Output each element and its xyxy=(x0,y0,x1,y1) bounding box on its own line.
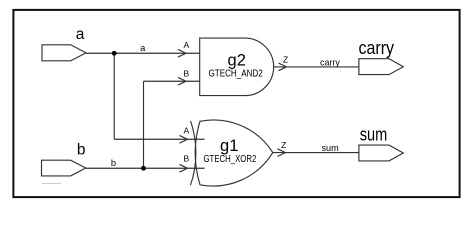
svg-text:Z: Z xyxy=(283,54,288,64)
svg-text:Z: Z xyxy=(281,140,286,150)
svg-text:sum: sum xyxy=(360,125,388,145)
svg-text:b: b xyxy=(77,141,86,158)
svg-text:b: b xyxy=(111,158,116,168)
svg-text:carry: carry xyxy=(320,57,340,67)
svg-text:B: B xyxy=(183,68,189,78)
svg-text:A: A xyxy=(183,40,189,50)
svg-text:carry: carry xyxy=(359,38,395,58)
svg-text:sum: sum xyxy=(321,143,339,153)
svg-text:a: a xyxy=(140,43,146,53)
svg-text:g2: g2 xyxy=(228,51,246,69)
svg-text:GTECH_XOR2: GTECH_XOR2 xyxy=(204,154,257,165)
svg-text:A: A xyxy=(183,126,189,136)
svg-text:g1: g1 xyxy=(220,137,238,155)
svg-text:a: a xyxy=(76,26,85,43)
svg-text:GTECH_AND2: GTECH_AND2 xyxy=(209,68,264,79)
svg-text:B: B xyxy=(183,153,189,163)
